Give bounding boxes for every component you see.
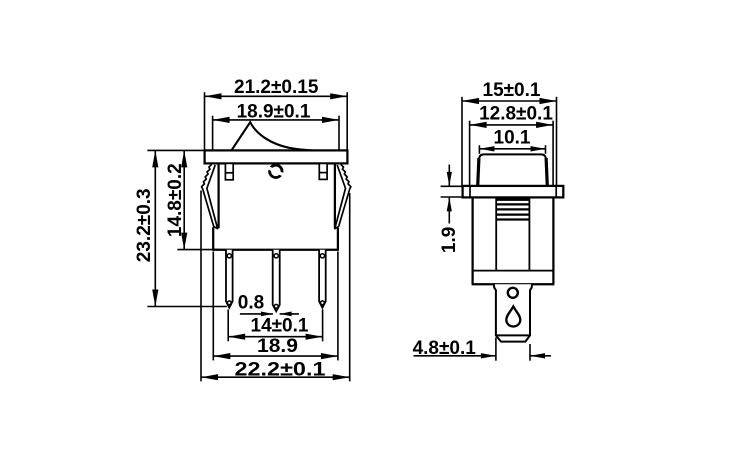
mounting flange (side view) (463, 186, 564, 198)
rocker actuator (front view) (232, 122, 340, 151)
ratchet ribs (side view) (496, 200, 529, 220)
terminal round hole (508, 288, 518, 298)
svg-text:12.8±0.1: 12.8±0.1 (479, 104, 553, 125)
right snap-in clip (335, 164, 351, 228)
dimension 12.8±0.1 line (470, 121, 553, 186)
svg-text:1.9: 1.9 (439, 227, 460, 253)
body lower left edge (212, 227, 214, 249)
pivot screw head (267, 165, 284, 177)
body inner column (side view) (473, 197, 554, 270)
body upper left edge (217, 163, 219, 228)
svg-text:14.8±0.2: 14.8±0.2 (165, 163, 186, 237)
left snap-in clip (202, 164, 218, 228)
left pivot tab (225, 163, 233, 179)
right pivot tab (319, 163, 327, 179)
svg-text:18.9: 18.9 (257, 336, 298, 357)
dimension 10.1 line (479, 145, 545, 154)
dimension 14.8±0.2 line (177, 150, 219, 249)
rocker button (side view) (478, 154, 548, 186)
dimension 4.8±0.1 line (414, 338, 551, 361)
terminal pin 2 (middle, front view) (273, 250, 280, 312)
svg-text:10.1: 10.1 (494, 127, 531, 148)
dimension 23.2±0.3 line (147, 150, 227, 306)
dimension 15±0.1 line (462, 97, 557, 186)
body bottom edge (212, 249, 339, 251)
body lower right edge (337, 228, 339, 250)
dimension 21.2±0.15 line (205, 92, 348, 150)
svg-text:14±0.1: 14±0.1 (251, 315, 309, 336)
body (side view) (472, 197, 555, 284)
svg-text:23.2±0.3: 23.2±0.3 (134, 188, 155, 262)
mounting flange (front view) (205, 150, 348, 163)
dimension 14±0.1 line (228, 310, 322, 342)
center terminal (side view) (494, 284, 532, 341)
dimension 1.9 line (441, 165, 463, 224)
body upper right edge (334, 163, 336, 228)
terminal pin 3 (right, front view) (319, 250, 326, 308)
terminal teardrop hole (506, 306, 520, 326)
dimension 22.2±0.1 line (201, 191, 350, 382)
svg-text:15±0.1: 15±0.1 (483, 80, 541, 101)
terminal pin 1 (left, front view) (226, 250, 233, 308)
dimension 0.8 line (240, 312, 299, 317)
svg-text:21.2±0.15: 21.2±0.15 (234, 77, 319, 98)
dimension 18.9±0.1 line (213, 116, 339, 150)
dimension 18.9 line (213, 252, 338, 361)
svg-text:0.8: 0.8 (238, 292, 264, 313)
